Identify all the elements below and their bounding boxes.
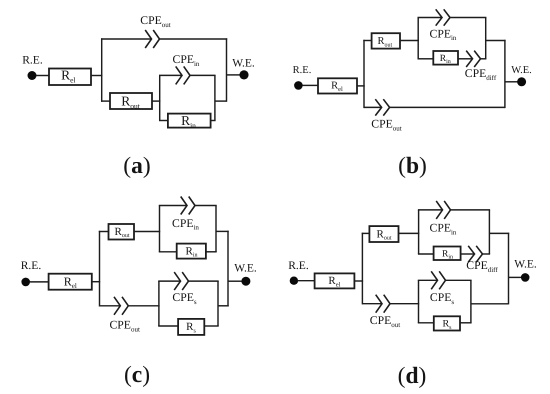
node R.E. label (a) [22, 55, 43, 67]
wire R.E. to Rel (a) [36, 75, 49, 77]
resistor Rout (b) [372, 33, 400, 48]
node R.E. terminal (a) [28, 71, 37, 80]
wire lower block top right segment (d) [446, 279, 472, 281]
wire Rel to split node (d) [354, 280, 363, 282]
svg-text:(d): (d) [398, 363, 427, 389]
wire inner block right rail (b) [485, 18, 487, 59]
wire Rout to upper block (c) [134, 231, 160, 233]
wire W.E. stub (b) [505, 81, 518, 83]
wire upper block bottom right segment (c) [206, 251, 217, 253]
node R.E. terminal (d) [290, 277, 298, 285]
CPE_in value label (b) [430, 27, 457, 42]
CPE_out value label (a) [140, 14, 170, 29]
CPE_out element (d) [376, 295, 390, 313]
wire CPE_diff to right rail (b) [481, 58, 487, 60]
wire R.E. to Rel (b) [302, 84, 318, 86]
wire lower block left rail (c) [158, 281, 160, 326]
wire upper block top left segment (d) [418, 209, 443, 211]
wire CPE_out to lower block (c) [128, 305, 159, 307]
wire lower block left rail (d) [418, 280, 420, 323]
svg-text:(c): (c) [124, 362, 150, 388]
wire outer right rail (d) [508, 233, 510, 305]
node W.E. label (b) [511, 65, 532, 76]
CPE_out element (a) [145, 30, 159, 48]
resistor Rel (a) [49, 68, 91, 85]
wire right rail (a) [226, 38, 228, 102]
svg-text:R.E.: R.E. [288, 260, 309, 272]
wire Rin to CPE_diff (b) [458, 58, 473, 60]
resistor Rout (a) [110, 93, 152, 110]
wire upper block top left segment (c) [159, 205, 187, 207]
resistor Rel (b) [318, 78, 357, 93]
wire upper block bottom left segment (c) [159, 251, 177, 253]
caption (a) [123, 153, 150, 179]
wire lower block to outer rail (d) [471, 303, 509, 305]
wire inner block to right rail (a) [215, 100, 227, 102]
CPE_s element (c) [174, 272, 188, 290]
node R.E. terminal (b) [294, 81, 303, 90]
wire inner block to outer rail (b) [486, 40, 506, 42]
CPE_in value label (d) [430, 222, 457, 237]
wire upper block to outer rail (c) [216, 230, 229, 232]
resistor Rs (c) [178, 319, 204, 335]
CPE_out element (c) [114, 297, 128, 315]
CPE_diff element (d) [468, 246, 482, 262]
svg-text:W.E.: W.E. [232, 58, 255, 70]
svg-text:R.E.: R.E. [21, 260, 42, 272]
wire lower block right rail (d) [470, 280, 472, 323]
wire lower block to outer rail (c) [218, 305, 229, 307]
svg-text:CPEdiff: CPEdiff [465, 67, 497, 82]
node R.E. terminal (c) [21, 278, 30, 287]
wire inner block right rail (a) [214, 75, 216, 120]
wire CPE_out to lower block (d) [390, 303, 419, 305]
CPE_s value label (d) [430, 291, 454, 306]
wire Rout to inner block (b) [400, 40, 419, 42]
wire inner top right segment (a) [190, 74, 216, 76]
node R.E. label (c) [21, 260, 42, 272]
wire top branch right segment (a) [160, 38, 228, 40]
CPE_s value label (c) [172, 291, 196, 306]
wire bottom branch to Rout (a) [101, 100, 110, 102]
resistor Rin (a) [168, 113, 211, 130]
wire inner block left rail (b) [417, 18, 419, 59]
wire upper block bottom left segment (d) [418, 253, 434, 255]
wire inner bottom left segment (a) [159, 120, 168, 122]
resistor Rout (c) [109, 224, 135, 240]
wire upper block to outer rail (d) [489, 232, 509, 234]
node W.E. terminal (b) [517, 77, 526, 86]
node W.E. terminal (c) [241, 277, 250, 286]
wire lower block top right segment (c) [189, 280, 219, 282]
caption (b) [398, 153, 427, 179]
resistor Rin (d) [434, 247, 461, 261]
wire outer right rail (c) [227, 231, 229, 307]
resistor Rs (d) [434, 316, 460, 331]
wire Rin to CPE_diff (d) [461, 253, 475, 255]
wire W.E. stub (a) [227, 74, 241, 76]
wire lower block right rail (c) [217, 281, 219, 326]
wire left rail (b) [363, 40, 365, 108]
wire lower block bottom left segment (c) [158, 325, 178, 327]
CPE_in value label (a) [173, 53, 200, 68]
wire R.E. to Rel (c) [30, 281, 49, 283]
wire lower block bottom left segment (d) [418, 322, 434, 324]
wire Rel to split node (c) [92, 281, 100, 283]
CPE_in element (c) [181, 197, 195, 215]
wire left rail (c) [99, 231, 101, 307]
caption (c) [124, 362, 150, 388]
wire lower block top left segment (d) [418, 279, 438, 281]
wire top branch left segment (a) [101, 38, 152, 40]
wire inner top right segment (b) [450, 17, 486, 19]
svg-text:CPEin: CPEin [430, 27, 457, 42]
wire left rail (d) [361, 233, 363, 305]
svg-text:CPEin: CPEin [172, 217, 199, 232]
node W.E. label (d) [514, 258, 537, 270]
svg-text:(a): (a) [123, 153, 150, 179]
wire inner bottom left segment (b) [418, 58, 434, 60]
CPE_in element (b) [436, 9, 450, 25]
svg-text:CPEin: CPEin [430, 222, 457, 237]
wire R.E. to Rel (d) [298, 280, 315, 282]
wire upper block left rail (c) [159, 206, 161, 252]
wire lower block bottom right segment (d) [460, 322, 472, 324]
wire bottom branch left segment (c) [100, 305, 121, 307]
wire inner bottom right segment (a) [211, 120, 216, 122]
svg-text:CPEdiff: CPEdiff [466, 259, 498, 274]
wire lower block bottom right segment (c) [204, 325, 218, 327]
wire top branch to Rout (d) [362, 232, 370, 234]
wire Rel to split node (b) [357, 85, 365, 87]
svg-text:CPEs: CPEs [172, 291, 196, 306]
node W.E. label (a) [232, 58, 255, 70]
svg-text:R.E.: R.E. [293, 65, 312, 76]
wire W.E. stub (c) [228, 280, 242, 282]
resistor Rout (d) [369, 226, 398, 242]
wire inner top left segment (b) [418, 17, 443, 19]
svg-text:W.E.: W.E. [234, 262, 257, 274]
svg-text:CPEout: CPEout [140, 14, 170, 29]
wire inner block left rail (a) [159, 75, 161, 120]
caption (d) [398, 363, 427, 389]
CPE_out element (b) [375, 99, 389, 115]
wire bottom branch left segment (d) [362, 303, 382, 305]
resistor Rel (d) [315, 273, 355, 288]
CPE_out value label (d) [370, 314, 400, 329]
node W.E. terminal (d) [521, 273, 530, 282]
svg-text:W.E.: W.E. [511, 65, 532, 76]
node R.E. label (b) [293, 65, 312, 76]
wire Rout to inner block (a) [152, 100, 160, 102]
CPE_in element (a) [176, 66, 190, 84]
wire top branch to Rout (b) [363, 40, 371, 42]
svg-text:R.E.: R.E. [22, 55, 43, 67]
svg-text:CPEs: CPEs [430, 291, 454, 306]
wire outer right rail (b) [504, 40, 506, 108]
wire Rel to split node (a) [91, 75, 102, 77]
wire upper block left rail (d) [418, 210, 420, 254]
CPE_s element (d) [431, 271, 445, 289]
wire upper block top right segment (d) [451, 209, 491, 211]
wire Rout to upper block (d) [399, 232, 420, 234]
resistor Rin (b) [433, 51, 458, 65]
wire left branch rail (a) [101, 38, 103, 102]
CPE_in element (d) [436, 201, 450, 219]
node W.E. terminal (a) [239, 70, 248, 79]
wire upper block right rail (c) [215, 206, 217, 252]
CPE_diff value label (d) [466, 259, 498, 274]
wire upper block right rail (d) [488, 210, 490, 254]
CPE_diff element (b) [466, 51, 480, 67]
svg-text:CPEin: CPEin [173, 53, 200, 68]
svg-text:(b): (b) [398, 153, 427, 179]
svg-text:CPEout: CPEout [110, 319, 140, 334]
resistor Rel (c) [49, 274, 92, 290]
wire CPE_diff to right rail (d) [483, 253, 491, 255]
wire bottom branch right segment (b) [390, 106, 505, 108]
wire bottom branch left segment (b) [364, 106, 382, 108]
node W.E. label (c) [234, 262, 257, 274]
wire lower block top left segment (c) [158, 280, 180, 282]
wire upper block top right segment (c) [195, 205, 217, 207]
wire top branch to Rout (c) [99, 231, 109, 233]
svg-text:W.E.: W.E. [514, 258, 537, 270]
wire inner top left segment (a) [159, 74, 182, 76]
CPE_out value label (c) [110, 319, 140, 334]
wire W.E. stub (d) [509, 276, 522, 278]
svg-text:CPEout: CPEout [370, 314, 400, 329]
CPE_out value label (b) [371, 118, 401, 133]
resistor Rin (c) [177, 244, 206, 259]
node R.E. label (d) [288, 260, 309, 272]
CPE_diff value label (b) [465, 67, 497, 82]
svg-text:CPEout: CPEout [371, 118, 401, 133]
CPE_in value label (c) [172, 217, 199, 232]
